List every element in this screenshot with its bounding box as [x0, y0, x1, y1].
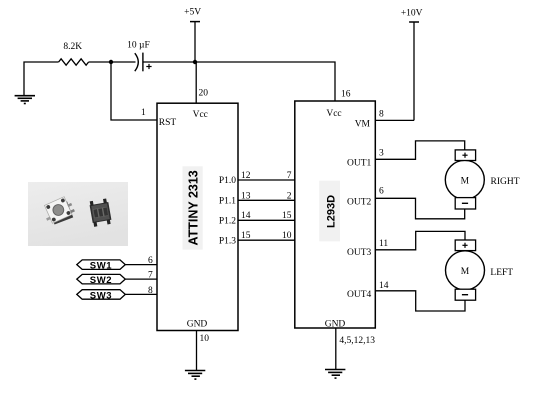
pin numbers 4,5,12,13 (U2 GND)	[339, 336, 375, 346]
pin number 2	[287, 191, 292, 201]
svg-text:3: 3	[379, 149, 384, 159]
svg-text:LEFT: LEFT	[490, 268, 513, 278]
svg-text:SW2: SW2	[90, 275, 112, 286]
wire: SW1 to pin 6	[125, 264, 157, 266]
pin number 7	[287, 171, 292, 181]
pin number 20	[199, 89, 209, 99]
IC U1 ATTINY 2313 box	[157, 103, 238, 330]
svg-text:14: 14	[379, 281, 389, 291]
svg-text:RST: RST	[159, 118, 177, 128]
svg-text:7: 7	[148, 271, 153, 281]
motor M1 RIGHT	[445, 150, 484, 209]
svg-text:7: 7	[287, 171, 292, 181]
junction node RST/R/C	[109, 60, 113, 64]
power +10V	[401, 9, 423, 121]
svg-text:12: 12	[241, 171, 251, 181]
photo: tactile push-button switches	[28, 182, 128, 246]
svg-text:10: 10	[200, 334, 210, 344]
wire: U1 GND pin 10 down	[196, 331, 198, 371]
wire: P1.2 to L293D pin 15	[238, 219, 295, 221]
svg-text:10: 10	[282, 231, 292, 241]
svg-text:P1.0: P1.0	[219, 176, 236, 186]
chip name band ATTINY 2313	[183, 166, 203, 249]
pin label OUT2	[347, 198, 372, 208]
svg-text:SW3: SW3	[90, 290, 112, 301]
wire: P1.0 to L293D pin 7	[238, 179, 295, 181]
label LEFT	[490, 268, 513, 278]
svg-text:11: 11	[379, 239, 388, 249]
pin label VM	[355, 120, 371, 130]
pin label OUT3	[347, 248, 372, 258]
pin label GND (U2)	[325, 320, 346, 330]
svg-text:15: 15	[282, 211, 292, 221]
svg-text:P1.1: P1.1	[219, 196, 236, 206]
svg-text:Vcc: Vcc	[193, 110, 208, 120]
svg-text:2: 2	[287, 191, 292, 201]
wire: junction down and right to RST pin	[111, 62, 157, 120]
pin number 6 (U2)	[379, 187, 384, 197]
IC U2 L293D box	[295, 101, 376, 328]
svg-text:L293D: L293D	[326, 195, 338, 228]
pin number 15 (U1 side)	[241, 231, 251, 241]
svg-text:ATTINY 2313: ATTINY 2313	[186, 170, 200, 245]
pin number 13	[241, 191, 251, 201]
svg-text:14: 14	[241, 211, 251, 221]
wire: P1.1 to L293D pin 2	[238, 199, 295, 201]
pin number 12	[241, 171, 251, 181]
pin label GND (U1)	[187, 320, 208, 330]
svg-text:16: 16	[341, 90, 351, 100]
ground (U2)	[325, 370, 345, 379]
chip name band L293D	[319, 181, 340, 242]
ground (top-left)	[15, 96, 35, 104]
svg-text:6: 6	[148, 256, 153, 266]
net label SW3	[77, 290, 126, 302]
svg-text:M: M	[461, 176, 470, 186]
capacitor plus mark	[146, 64, 151, 69]
pin label P1.2	[219, 216, 236, 226]
pin number 7 (U1)	[148, 271, 153, 281]
wire: SW2 to pin 7	[125, 278, 157, 280]
resistor R1 8.2K	[59, 59, 89, 65]
pin number 14	[241, 211, 251, 221]
svg-text:OUT3: OUT3	[347, 248, 372, 258]
svg-text:8: 8	[379, 110, 384, 120]
pin number 15 (U2 side)	[282, 211, 292, 221]
net label SW2	[77, 274, 126, 286]
svg-text:8.2K: 8.2K	[63, 42, 82, 52]
svg-text:VM: VM	[355, 120, 371, 130]
svg-text:OUT2: OUT2	[347, 198, 372, 208]
value label 8.2K	[63, 42, 82, 52]
svg-text:SW1: SW1	[90, 261, 113, 272]
svg-text:Vcc: Vcc	[326, 109, 341, 119]
wire: P1.3 to L293D pin 10	[238, 239, 295, 241]
pin label RST (U1)	[159, 118, 177, 128]
pin number 6 (U1)	[148, 256, 153, 266]
ground (U1)	[185, 371, 205, 380]
pin number 10 (U1 GND)	[200, 334, 210, 344]
pin number 3	[379, 149, 384, 159]
svg-text:OUT4: OUT4	[347, 290, 372, 300]
svg-text:GND: GND	[325, 320, 346, 330]
svg-text:8: 8	[148, 286, 153, 296]
pin number 8 (U2 VM)	[379, 110, 384, 120]
svg-text:GND: GND	[187, 320, 208, 330]
svg-text:P1.2: P1.2	[219, 216, 236, 226]
pin number 8 (U1)	[148, 286, 153, 296]
pin number 10 (U2 side)	[282, 231, 292, 241]
power +5V	[184, 8, 201, 62]
wire: U2 GND pins down	[335, 328, 337, 370]
wire: VM pin 8 to +10V	[375, 119, 414, 121]
svg-text:1: 1	[141, 108, 146, 118]
label RIGHT	[491, 177, 520, 187]
svg-text:M: M	[461, 267, 470, 277]
wire: OUT3 to left motor +	[375, 231, 465, 249]
pin number 11	[379, 239, 388, 249]
right switch (bottom view)	[89, 198, 112, 227]
motor M2 LEFT	[446, 240, 485, 300]
pin number 16	[341, 90, 351, 100]
pin label OUT1	[347, 158, 372, 168]
svg-text:P1.3: P1.3	[219, 236, 236, 246]
wire: +5V rail from capacitor to L293D pin16 drop	[143, 62, 335, 101]
pin label P1.0	[219, 176, 236, 186]
wire: left rail from ground corner to resistor	[24, 62, 59, 96]
svg-text:13: 13	[241, 191, 251, 201]
pin number 14	[379, 281, 389, 291]
net label SW1	[77, 260, 126, 272]
svg-text:4,5,12,13: 4,5,12,13	[339, 336, 375, 346]
capacitor C1 10uF (polarized)	[135, 53, 143, 72]
value label 10 uF	[127, 41, 150, 51]
pin label P1.1	[219, 196, 236, 206]
wire: +5V rail down to ATTINY pin 20	[195, 62, 197, 103]
svg-text:6: 6	[379, 187, 384, 197]
pin label P1.3	[219, 236, 236, 246]
svg-text:OUT1: OUT1	[347, 158, 372, 168]
wire: resistor to capacitor	[89, 61, 136, 63]
svg-text:20: 20	[199, 89, 209, 99]
pin label Vcc (U2)	[326, 109, 341, 119]
left switch (top view)	[41, 195, 77, 227]
wire: SW3 to pin 8	[125, 293, 157, 295]
wire: OUT2 to right motor -	[375, 198, 464, 219]
wire: OUT4 to left motor -	[375, 291, 465, 311]
svg-text:+5V: +5V	[184, 8, 201, 18]
svg-text:RIGHT: RIGHT	[491, 177, 520, 187]
pin label OUT4	[347, 290, 372, 300]
svg-text:15: 15	[241, 231, 251, 241]
wire: OUT1 to right motor +	[375, 141, 464, 159]
pin label Vcc (U1)	[193, 110, 208, 120]
junction node +5V rail	[193, 60, 197, 64]
svg-text:10 µF: 10 µF	[127, 41, 150, 51]
pin number 1	[141, 108, 146, 118]
svg-text:+10V: +10V	[401, 9, 423, 19]
